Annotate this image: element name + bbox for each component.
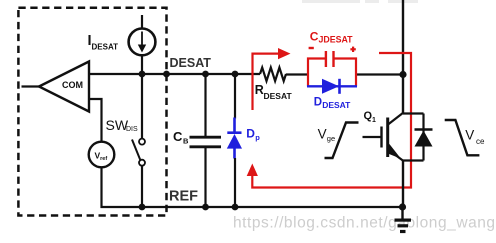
freewheel diode loop wires — [403, 112, 424, 114]
red current path: right side loop — [252, 53, 411, 188]
diode D_DESAT — [307, 85, 357, 87]
svg-text:C: C — [173, 129, 183, 144]
watermark top partial — [302, 0, 418, 3]
junction dots DESAT rail — [139, 71, 146, 78]
red current path: top-left arrow — [253, 54, 281, 110]
wire: gate lead — [363, 136, 382, 138]
junction dots REF rail — [139, 204, 146, 211]
op-amp U1 comparator COM — [39, 62, 89, 112]
svg-text:D: D — [246, 127, 255, 141]
wire: comparator lower input to Vref — [89, 99, 102, 142]
svg-text:ge: ge — [327, 134, 335, 143]
svg-text:V: V — [465, 127, 474, 142]
diode D_p — [234, 74, 236, 119]
dashed IC boundary box — [18, 8, 166, 216]
gate bar — [380, 127, 382, 148]
current source I_DESAT — [141, 15, 143, 29]
svg-text:REF: REF — [169, 189, 198, 205]
wire: REF rail — [101, 206, 404, 208]
svg-text:C: C — [310, 29, 319, 43]
wire: emitter down to REF rail — [402, 160, 404, 207]
svg-text:V: V — [318, 127, 327, 142]
wire: DESAT rail left (comparator to R_DESAT) — [89, 73, 260, 75]
svg-text:1: 1 — [372, 117, 376, 124]
wire: current source to DESAT rail — [141, 55, 143, 74]
wire: comparator output stub — [22, 85, 40, 87]
body bar — [386, 118, 389, 158]
wire: rail red box to collector node — [356, 73, 404, 75]
voltage source Vref — [89, 142, 115, 168]
svg-text:DESAT: DESAT — [322, 100, 351, 110]
svg-text:D: D — [314, 97, 322, 109]
resistor R_DESAT — [260, 68, 286, 82]
svg-text:B: B — [183, 137, 189, 146]
svg-text:DESAT: DESAT — [264, 91, 293, 101]
collector diagonal — [388, 113, 404, 125]
freewheel diode — [415, 128, 433, 131]
waveform V_ce — [445, 120, 480, 155]
svg-text:https://blog.csdn.net/gaolong_: https://blog.csdn.net/gaolong_wang — [233, 215, 496, 232]
svg-text:DESAT: DESAT — [170, 56, 212, 70]
emitter diagonal with arrow — [388, 150, 404, 162]
svg-text:p: p — [255, 133, 260, 142]
svg-text:R: R — [255, 83, 264, 97]
ground — [401, 207, 403, 219]
capacitor C_J,DESAT red box — [308, 59, 325, 75]
svg-text:ce: ce — [476, 137, 485, 146]
svg-text:COM: COM — [62, 80, 83, 90]
switch SW_DIS — [141, 74, 143, 139]
waveform V_ge — [325, 123, 359, 159]
wire: collector vertical to top — [402, 0, 404, 114]
capacitor C_B — [204, 74, 206, 136]
svg-text:DIS: DIS — [126, 126, 138, 133]
wire: rail R_DESAT to red box — [286, 73, 308, 75]
svg-text:JDESAT: JDESAT — [319, 35, 354, 45]
svg-text:DESAT: DESAT — [92, 42, 119, 51]
wire: Vref to REF rail — [100, 167, 102, 208]
